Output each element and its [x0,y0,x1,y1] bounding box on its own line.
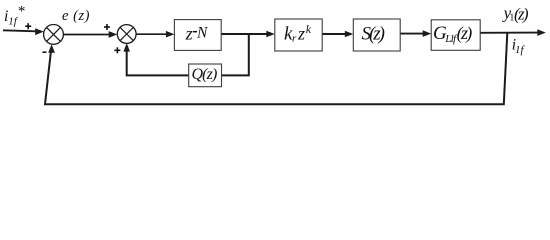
svg-text:S(z): S(z) [362,24,386,45]
svg-text:(z): (z) [457,23,473,44]
svg-text:Q(z): Q(z) [192,66,218,83]
svg-text:k: k [306,22,312,36]
svg-text:r: r [292,33,297,45]
svg-text:(z): (z) [514,4,529,23]
svg-text:z: z [185,24,193,44]
svg-text:*: * [18,4,26,20]
svg-text:e (z): e (z) [62,8,90,24]
svg-text:N: N [196,24,209,41]
svg-text:z: z [297,23,305,43]
